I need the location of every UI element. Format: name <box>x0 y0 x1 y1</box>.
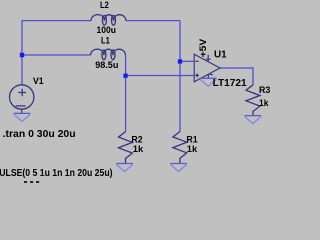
partial second line <box>24 181 39 183</box>
svg-text:100u: 100u <box>97 25 117 36</box>
wire L1 out down to R2 <box>125 55 127 132</box>
ground R1 <box>170 164 187 172</box>
resistor R1 <box>173 132 187 164</box>
resistor R2 <box>119 132 133 164</box>
wire minus input <box>180 60 194 62</box>
op-amp U1 triangle <box>194 54 220 82</box>
ground R2 <box>116 164 133 172</box>
ground V1 <box>14 113 31 121</box>
svg-text:L1: L1 <box>101 35 110 46</box>
inductor L2 <box>91 15 126 26</box>
inductor L1 <box>91 49 126 60</box>
node junction minus net <box>178 59 182 63</box>
svg-text:R3: R3 <box>259 85 270 96</box>
wire plus input <box>126 75 194 77</box>
svg-text:1k: 1k <box>133 144 144 155</box>
op-amp V+ pin <box>206 55 211 62</box>
wire L1 row <box>22 54 91 56</box>
svg-text:V1: V1 <box>33 76 44 87</box>
wire op-amp output <box>220 68 253 85</box>
op-amp plus marker <box>195 74 199 78</box>
ground op-amp <box>200 78 217 86</box>
op-amp V- pin <box>208 74 212 78</box>
svg-text:PULSE(0 5 1u 1n 1n 20u 25u): PULSE(0 5 1u 1n 1n 20u 25u) <box>0 168 113 179</box>
svg-text:U1: U1 <box>214 50 227 61</box>
wire V1 bottom stub <box>21 109 23 113</box>
svg-text:.tran 0 30u 20u: .tran 0 30u 20u <box>3 128 76 140</box>
svg-text:1k: 1k <box>187 144 198 155</box>
svg-text:+5V: +5V <box>198 39 208 58</box>
svg-text:98.5u: 98.5u <box>95 60 118 71</box>
ground R3 <box>245 116 262 124</box>
wire top horizontal right <box>126 20 180 22</box>
resistor R3 <box>246 85 260 116</box>
wire top horizontal left <box>22 20 91 22</box>
voltage source V1 <box>10 85 34 109</box>
wire L2 out down to R1 <box>179 21 181 132</box>
node junction L1/V1 <box>20 53 24 57</box>
op-amp minus marker <box>195 60 198 62</box>
svg-text:L2: L2 <box>100 0 109 11</box>
node junction plus net <box>123 74 127 78</box>
svg-text:LT1721: LT1721 <box>213 78 247 89</box>
wire left vertical <box>21 21 23 86</box>
svg-text:1k: 1k <box>259 98 269 109</box>
